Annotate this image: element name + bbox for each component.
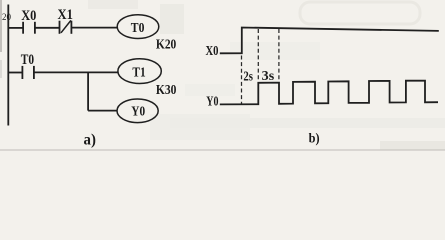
contact T0 (NO) [21, 66, 23, 79]
dashed marker at 5s [278, 29, 280, 81]
svg-text:20: 20 [2, 12, 12, 22]
branch wire down [87, 72, 89, 110]
wire rung2: rail to T0 contact [8, 72, 22, 74]
coil T1 [118, 59, 161, 84]
dashed marker at t0 [241, 56, 243, 104]
svg-text:T1: T1 [132, 65, 145, 80]
svg-text:T0: T0 [21, 52, 34, 68]
svg-text:Y0: Y0 [206, 94, 218, 109]
svg-text:X1: X1 [58, 7, 73, 23]
contact X1 (NC) [59, 21, 61, 34]
coil T0 [117, 15, 159, 39]
svg-text:X0: X0 [21, 8, 36, 24]
wire X1 to T0 coil [71, 27, 117, 29]
svg-text:Y0: Y0 [131, 105, 145, 120]
paper background [0, 0, 445, 152]
faint scan artifacts [88, 0, 138, 9]
wire rung1: rail to X0 contact [8, 27, 23, 29]
Y0 waveform [220, 81, 438, 105]
wire between X0 and X1 [35, 27, 60, 29]
branch wire to Y0 coil [88, 110, 117, 112]
svg-text:X0: X0 [206, 43, 219, 58]
svg-text:K20: K20 [156, 38, 176, 53]
svg-text:2s: 2s [243, 69, 253, 84]
X0 waveform [220, 28, 439, 54]
left power rail [7, 5, 9, 126]
wire T0 contact to T1 coil [34, 71, 118, 73]
coil Y0 [117, 99, 158, 123]
svg-text:T0: T0 [131, 21, 145, 36]
svg-text:3s: 3s [262, 69, 275, 84]
svg-text:b): b) [309, 132, 320, 147]
contact X0 (NO) [22, 22, 24, 34]
svg-text:K30: K30 [156, 83, 177, 98]
dashed marker at 2s [257, 29, 259, 82]
svg-text:a): a) [84, 131, 96, 148]
